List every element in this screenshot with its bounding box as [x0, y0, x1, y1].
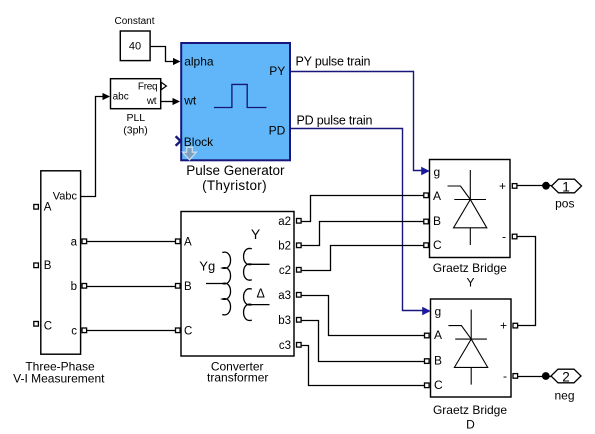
- svg-text:transformer: transformer: [207, 371, 268, 385]
- svg-text:Pulse Generator: Pulse Generator: [186, 163, 285, 178]
- svg-text:+: +: [499, 179, 506, 193]
- wire a2 to bridge Y A: [302, 196, 425, 222]
- thyristor icon bridge D: [448, 310, 487, 385]
- secondary Delta lead: [252, 304, 270, 306]
- svg-text:B: B: [434, 354, 442, 368]
- physical port square a: [82, 239, 87, 244]
- physical port square bridge D A: [425, 333, 430, 338]
- unconnected output port Freq: [161, 82, 166, 90]
- physical port square bridge Y A: [424, 193, 429, 198]
- svg-text:c3: c3: [279, 340, 291, 352]
- svg-text:C: C: [434, 378, 443, 392]
- physical port square bridge D B: [425, 359, 430, 364]
- arrowhead abc input: [103, 93, 111, 100]
- physical port square bridge D minus: [513, 374, 518, 379]
- svg-text:+: +: [500, 319, 507, 333]
- svg-text:pos: pos: [555, 197, 574, 211]
- svg-text:2: 2: [562, 370, 570, 385]
- arrowhead wt input: [173, 98, 181, 105]
- physical port square C: [34, 322, 39, 327]
- block Graetz Bridge D: [431, 299, 512, 397]
- physical port square A: [34, 205, 39, 210]
- wire PY to Graetz Bridge Y g: [289, 72, 423, 171]
- physical port square bridge Y C: [424, 243, 429, 248]
- svg-text:1: 1: [562, 178, 570, 194]
- svg-text:Constant: Constant: [114, 16, 154, 27]
- wire b to transformer B: [87, 286, 176, 288]
- physical port square transformer A: [176, 239, 181, 244]
- physical port square bridge Y plus: [512, 184, 517, 189]
- svg-text:a2: a2: [278, 216, 291, 228]
- svg-text:Y: Y: [466, 275, 474, 289]
- svg-text:C: C: [44, 320, 52, 332]
- physical port square c2: [297, 268, 302, 273]
- wire c2 to bridge Y C: [302, 246, 425, 271]
- wire b2 to bridge Y B: [302, 222, 425, 246]
- svg-text:alpha: alpha: [184, 54, 214, 68]
- svg-text:-: -: [503, 369, 507, 383]
- wire b3 to bridge D B: [302, 321, 425, 362]
- svg-text:C: C: [433, 238, 442, 252]
- secondary winding Y coil: [244, 248, 252, 280]
- svg-text:(3ph): (3ph): [123, 124, 148, 136]
- svg-text:g: g: [435, 305, 442, 319]
- wire c3 to bridge D C: [302, 346, 425, 386]
- wire PD to Graetz Bridge D g: [289, 129, 424, 311]
- svg-text:V-I Measurement: V-I Measurement: [13, 372, 105, 386]
- svg-text:PY: PY: [269, 64, 285, 78]
- svg-text:Yg: Yg: [199, 258, 215, 273]
- physical port square transformer B: [176, 284, 181, 289]
- arrowhead g input D: [422, 307, 431, 315]
- svg-text:a3: a3: [278, 290, 291, 302]
- physical port square B: [34, 263, 39, 268]
- physical port square transformer C: [176, 328, 181, 333]
- svg-text:A: A: [433, 189, 441, 203]
- junction dot neg: [542, 372, 550, 380]
- physical port square c3: [297, 343, 302, 348]
- secondary winding Delta coil: [244, 289, 252, 321]
- wire PLL wt to Pulse Generator wt: [161, 101, 174, 103]
- arrowhead alpha input: [173, 58, 181, 65]
- svg-text:Graetz Bridge: Graetz Bridge: [433, 403, 507, 417]
- physical port square bridge D plus: [513, 323, 518, 328]
- wire bridge Y plus to pos: [517, 185, 551, 187]
- svg-text:b2: b2: [278, 241, 291, 253]
- connection port neg hexagon: [551, 369, 581, 383]
- grey down arrow annotation: [183, 147, 197, 160]
- svg-text:PD: PD: [269, 123, 286, 137]
- wire c to transformer C: [87, 330, 176, 332]
- physical port square a3: [297, 293, 302, 298]
- physical port square b: [82, 284, 87, 289]
- wire bridge D minus to neg: [518, 376, 551, 378]
- wire a3 to bridge D A: [302, 296, 425, 336]
- block Converter transformer: [181, 212, 294, 357]
- svg-text:Y: Y: [251, 226, 261, 242]
- physical port square b3: [297, 318, 302, 323]
- svg-text:40: 40: [129, 41, 141, 53]
- svg-text:b: b: [71, 281, 77, 293]
- block Pulse Generator (Thyristor): [181, 43, 290, 160]
- primary winding lead: [206, 283, 222, 285]
- physical port square bridge Y B: [424, 219, 429, 224]
- svg-text:abc: abc: [113, 91, 129, 102]
- svg-text:Vabc: Vabc: [53, 191, 78, 203]
- svg-text:c: c: [71, 326, 77, 338]
- svg-text:B: B: [433, 214, 441, 228]
- svg-text:(Thyristor): (Thyristor): [202, 178, 267, 193]
- svg-text:a: a: [71, 237, 78, 249]
- svg-text:D: D: [466, 418, 475, 432]
- svg-text:g: g: [434, 165, 441, 179]
- block Constant: [120, 31, 150, 61]
- physical port square bridge D C: [425, 383, 430, 388]
- wire Vabc to PLL abc: [81, 97, 104, 197]
- block PLL (3ph): [111, 79, 161, 109]
- svg-text:Freq: Freq: [138, 81, 157, 92]
- svg-text:PY pulse train: PY pulse train: [296, 54, 371, 68]
- svg-text:B: B: [44, 260, 52, 272]
- wire bridge Y minus to bridge D plus: [517, 237, 535, 326]
- svg-text:Graetz Bridge: Graetz Bridge: [433, 261, 507, 275]
- junction dot pos: [542, 182, 550, 190]
- connection port pos hexagon: [552, 179, 582, 193]
- pulse waveform icon: [214, 84, 267, 107]
- svg-text:b3: b3: [278, 315, 291, 327]
- wire a to transformer A: [87, 241, 176, 243]
- block Three-Phase V-I Measurement: [41, 171, 81, 354]
- svg-text:C: C: [184, 326, 192, 338]
- secondary Y lead: [252, 263, 270, 265]
- svg-text:PD pulse train: PD pulse train: [297, 113, 373, 127]
- primary winding coil: [222, 252, 230, 315]
- svg-text:c2: c2: [279, 265, 291, 277]
- svg-text:wt: wt: [146, 96, 157, 107]
- svg-text:Δ: Δ: [257, 287, 265, 301]
- svg-text:PLL: PLL: [126, 112, 145, 124]
- svg-text:B: B: [184, 281, 192, 293]
- svg-text:A: A: [184, 237, 192, 249]
- block Graetz Bridge Y: [430, 160, 511, 258]
- svg-text:wt: wt: [183, 94, 197, 108]
- physical port square bridge Y minus: [512, 234, 517, 239]
- svg-text:A: A: [44, 201, 52, 213]
- physical port square a2: [297, 219, 302, 224]
- wire Constant to alpha: [150, 47, 174, 62]
- svg-text:A: A: [434, 328, 442, 342]
- physical port square c: [82, 328, 87, 333]
- physical port square b2: [297, 243, 302, 248]
- unconnected Block input chevron: [176, 136, 181, 146]
- thyristor icon bridge Y: [448, 170, 487, 245]
- svg-text:-: -: [502, 230, 506, 244]
- svg-text:neg: neg: [554, 388, 574, 402]
- arrowhead g input Y: [421, 167, 430, 175]
